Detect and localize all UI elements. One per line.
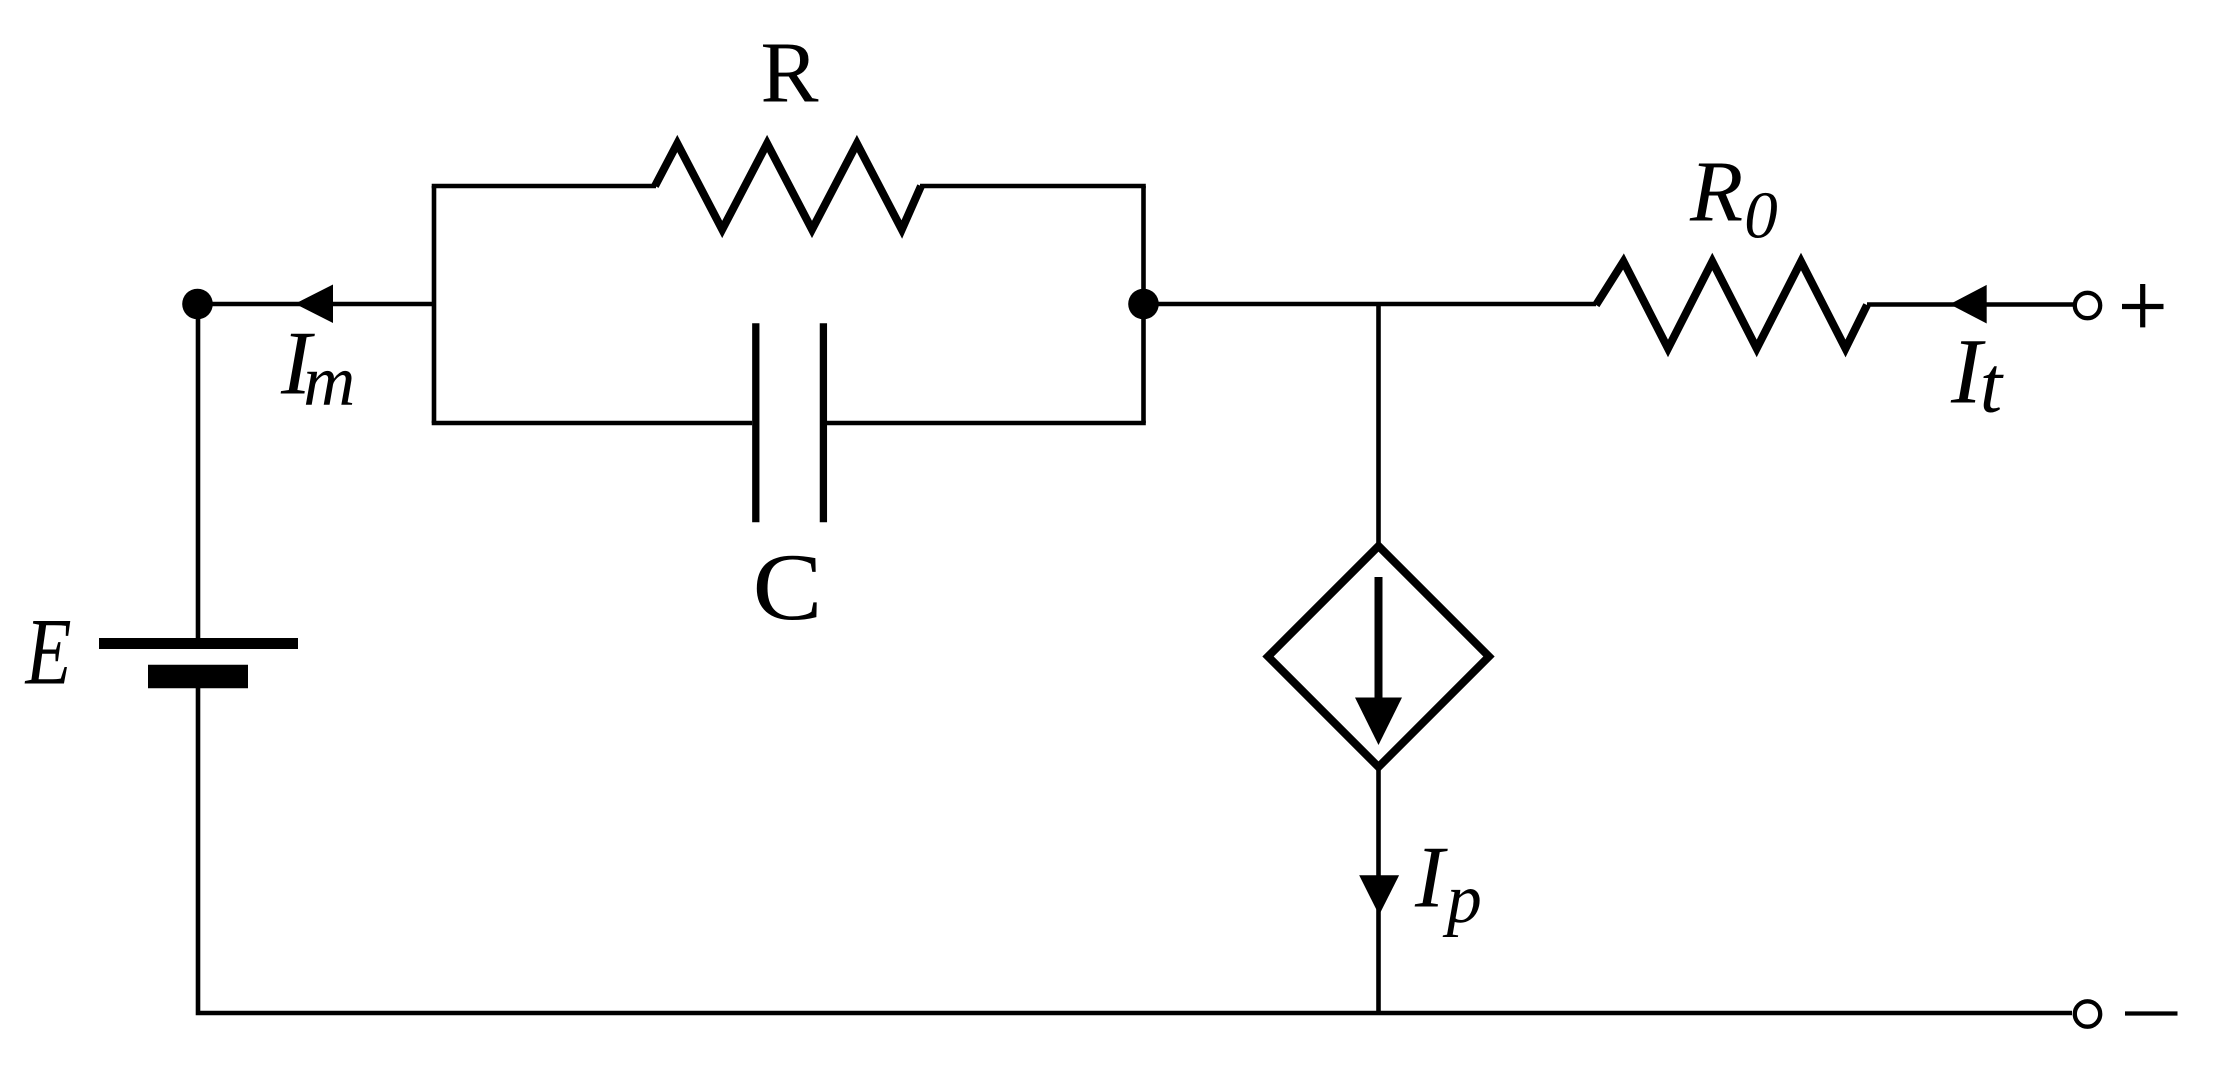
svg-text:R: R [1689,143,1743,240]
battery E short thick plate [148,665,248,689]
svg-text:p: p [1442,861,1482,938]
wire: RC block left vertical [432,186,437,423]
arrow It (pointing left) [1950,285,1987,324]
svg-text:C: C [753,534,823,640]
arrow Ip (pointing down, on wire) [1359,875,1399,915]
wire: mid wire from right node to R0 [1144,302,1597,307]
svg-text:m: m [303,341,355,421]
wire: bottom branch leads to capacitor C [432,421,753,426]
minus sign [2125,1011,2178,1015]
wire: top branch leads to resistor R [432,184,656,189]
resistor R0 zigzag [1596,262,1867,349]
wire: RC block right vertical [1141,186,1146,423]
capacitor C plate right [820,323,827,522]
svg-text:E: E [24,599,72,705]
resistor R zigzag [655,144,921,230]
wire: junction down to current source top [1376,304,1381,546]
dependent current source U1: diamond [1268,546,1489,767]
battery E long plate [99,638,298,649]
node A: left junction dot [182,289,213,320]
wire: node to RC block left side [195,302,434,307]
svg-text:t: t [1980,342,2004,430]
svg-text:I: I [1414,830,1448,927]
svg-text:0: 0 [1744,178,1778,252]
wire: battery bottom to lower-left corner and bottom rail to right terminal [198,688,2072,1013]
wire: current source bottom to bottom rail [1376,767,1381,1013]
terminal -: open circle [2075,1001,2100,1026]
node B: right junction dot [1128,289,1159,320]
plus sign [2122,284,2164,327]
terminal +: open circle [2075,293,2100,318]
wire: R0 to plus terminal [1867,302,2073,307]
arrow Im (pointing left) [295,285,333,324]
current source internal arrow (down) [1375,577,1383,700]
capacitor C plate left [752,323,759,522]
svg-text:R: R [760,24,818,121]
wire: left vertical from node to battery top [196,304,201,638]
